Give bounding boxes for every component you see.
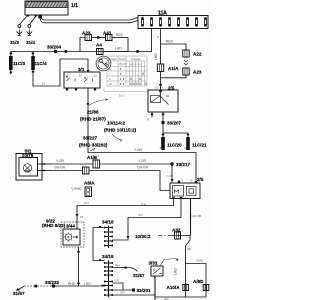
svg-text:RHD: RHD [68, 282, 76, 286]
connector 34/18 [102, 220, 114, 249]
bottom link wire [155, 297, 206, 300]
wire 3/44 down to ground wire [77, 247, 79, 286]
svg-text:16:7: 16:7 [119, 94, 125, 98]
svg-text:10/30:2: 10/30:2 [135, 234, 151, 239]
junction 33/217 [166, 162, 190, 183]
svg-text:Y-GR: Y-GR [138, 159, 147, 163]
svg-text:(RHD 33/202): (RHD 33/202) [79, 143, 108, 148]
svg-text:15: 15 [42, 82, 46, 86]
svg-text:A6/A: A6/A [84, 181, 95, 186]
wire A1/A to relay 2/5 [155, 72, 162, 91]
svg-text:III: III [109, 82, 112, 86]
svg-text:50: 50 [65, 74, 69, 78]
svg-text:33/217: 33/217 [176, 162, 190, 167]
svg-text:31/3: 31/3 [10, 40, 19, 45]
svg-text:3/44: 3/44 [66, 224, 75, 229]
connector A4 [96, 43, 103, 55]
svg-text:Y-GR: Y-GR [56, 159, 65, 163]
fuse 11C/21 [185, 137, 208, 150]
svg-text:Termi: Termi [119, 57, 127, 61]
svg-text:Functio: Functio [131, 57, 141, 61]
svg-text:LHD: LHD [154, 53, 158, 60]
svg-text:Y-GR: Y-GR [166, 174, 174, 178]
fuse 11C/4 [31, 52, 47, 71]
svg-text:A/6D: A/6D [193, 279, 204, 284]
svg-text:3/31: 3/31 [149, 261, 158, 266]
svg-text:Positio: Positio [108, 57, 117, 61]
switch 3/31 [149, 258, 179, 276]
svg-text:11C/21: 11C/21 [192, 143, 207, 148]
relay lower thick output [191, 199, 202, 236]
svg-text:LHD: LHD [115, 47, 122, 51]
svg-text:A23: A23 [193, 70, 202, 75]
bracket under table [104, 88, 148, 98]
wire A4 LHD to fusebox pin [103, 29, 152, 53]
sensor 3/44 [42, 219, 84, 248]
wire A23 to main [161, 75, 187, 78]
junction 33/207 [161, 121, 181, 126]
wire 34/18 to relay pin [112, 199, 181, 241]
svg-text:11C/20: 11C/20 [167, 143, 182, 148]
svg-text:11C/3: 11C/3 [13, 61, 25, 66]
ground 31/3 [10, 31, 22, 46]
svg-text:15: 15 [94, 74, 98, 78]
relay 2/5 lower [170, 177, 204, 199]
svg-text:GN: GN [138, 213, 143, 217]
ground terminals from battery [18, 16, 36, 31]
fuses inside 11A [141, 17, 207, 26]
svg-text:30 15: 30 15 [119, 62, 127, 66]
connector 34/19 [102, 254, 114, 297]
svg-text:a b c d e: a b c d e [130, 62, 142, 66]
wire A32 down split RHD/LHD [174, 236, 207, 298]
34/19 bottom wire [113, 291, 156, 296]
battery 1/1 [25, 1, 78, 18]
wire A41 RED down to LHD wire [112, 33, 128, 52]
svg-text:31/57: 31/57 [13, 291, 25, 296]
relay upper bottom pins [148, 112, 165, 122]
svg-text:30: 30 [79, 74, 83, 78]
SI1 pins [38, 163, 53, 171]
connector A32 [172, 228, 190, 240]
svg-text:31/67: 31/67 [133, 273, 145, 278]
svg-text:*) RHD: *) RHD [71, 187, 82, 191]
label 10/30:2 with dash [135, 234, 172, 239]
3/31 thick output [154, 276, 156, 300]
svg-text:21/86: 21/86 [87, 110, 99, 115]
svg-text:RHD: RHD [197, 258, 204, 262]
svg-text:31/4: 31/4 [26, 40, 35, 45]
ignition key symbol [96, 56, 111, 71]
fuse 11C/3 [9, 53, 25, 75]
wire 11C/4 to ignition switch [32, 59, 88, 86]
fuse 11C/20 [160, 137, 183, 150]
wire 34/18 link [93, 226, 105, 261]
label 10/114:2 [104, 121, 137, 142]
bus wire 33/204 [11, 45, 128, 57]
svg-text:3/1: 3/1 [78, 67, 85, 72]
svg-text:A10/A: A10/A [167, 285, 181, 290]
34/19 wire loop to 33/201 wire [113, 279, 124, 291]
svg-text:LHD: LHD [174, 268, 178, 275]
connector A1/A [157, 64, 179, 72]
svg-text:RED: RED [116, 33, 124, 37]
34/19 wire to junction 33/201 [113, 288, 151, 293]
ignition switch 3/1 [64, 67, 100, 88]
switch bottom pins [66, 88, 96, 91]
wire3 GN-GR SI1 to relay [52, 166, 170, 191]
branch to A22 [161, 40, 187, 51]
svg-text:Y-GR: Y-GR [134, 148, 143, 152]
connector A22 [183, 50, 202, 57]
connector A/6D [193, 279, 209, 291]
svg-text:A1/A: A1/A [168, 66, 179, 71]
svg-text:A22: A22 [193, 52, 202, 57]
svg-text:GN: GN [84, 201, 89, 205]
svg-text:1/1: 1/1 [71, 3, 78, 9]
svg-text:A1/E: A1/E [87, 155, 97, 160]
svg-text:(RHD 9/23): (RHD 9/23) [42, 223, 66, 228]
svg-text:33/207: 33/207 [167, 121, 181, 126]
connector A23 (right) [183, 68, 202, 75]
svg-text:33/232: 33/232 [45, 280, 59, 285]
svg-text:33/201: 33/201 [137, 288, 151, 293]
arrows between A22 and A23b [184, 60, 188, 65]
fusebox 11A [138, 11, 208, 29]
svg-text:18: 18 [80, 215, 84, 219]
lamp unit SI1 10/78 [16, 149, 42, 180]
connector A23 [82, 31, 92, 41]
svg-text:11C/4: 11C/4 [35, 61, 47, 66]
svg-text:A4: A4 [96, 43, 102, 48]
key position table [107, 56, 147, 86]
svg-text:(RHD 21/87): (RHD 21/87) [80, 117, 106, 122]
svg-text:33/227: 33/227 [83, 136, 97, 141]
svg-text:GN: GN [115, 263, 120, 267]
connector A10/A [167, 285, 189, 291]
note RHD connector A6/A [71, 181, 95, 197]
main feed wire from fuse to A1/A [154, 29, 161, 65]
svg-text:33/204: 33/204 [47, 45, 61, 50]
ground 31/4 [26, 31, 35, 46]
label 33/227 [79, 136, 108, 152]
svg-text:2/5: 2/5 [197, 177, 204, 182]
svg-text:10/114:2: 10/114:2 [107, 121, 125, 126]
label 21/86 [80, 99, 108, 122]
relay lower bottom pin GN wire to 3/44 [76, 199, 174, 230]
wire2 Y-GR SI1 to 33/217 [52, 159, 172, 164]
svg-text:RED: RED [166, 40, 174, 44]
svg-text:10/78: 10/78 [22, 153, 34, 158]
connector A41 [103, 31, 112, 41]
wires to fuses 11C/20 11C/21 [162, 123, 189, 138]
svg-text:10: 10 [155, 86, 159, 90]
connector A1/E [87, 154, 100, 168]
wire ignition to Y-GR feed [87, 88, 196, 183]
svg-text:(RHD 10/115:2): (RHD 10/115:2) [104, 128, 137, 133]
svg-text:GN-GR: GN-GR [137, 166, 149, 170]
svg-text:34/19: 34/19 [102, 254, 114, 259]
connector on wire3 (A6/A lhd) [83, 167, 90, 174]
svg-text:GR-SB: GR-SB [192, 214, 202, 218]
34/19 wire to 31/67 [113, 263, 145, 278]
branch riser to A23 [80, 38, 85, 52]
relay 2/5 upper [148, 86, 178, 113]
wire battery to fusebox (double feed) [40, 18, 138, 23]
svg-text:LHD: LHD [84, 282, 91, 286]
ground 31/57 with dashed wire 33/232 [13, 280, 105, 296]
svg-text:GN-GR: GN-GR [54, 166, 66, 170]
wire A23 to A41 [92, 36, 106, 38]
svg-text:34/18: 34/18 [102, 220, 114, 225]
svg-text:SB: SB [187, 247, 191, 251]
svg-text:II: II [109, 77, 111, 81]
svg-text:GN: GN [141, 203, 147, 207]
